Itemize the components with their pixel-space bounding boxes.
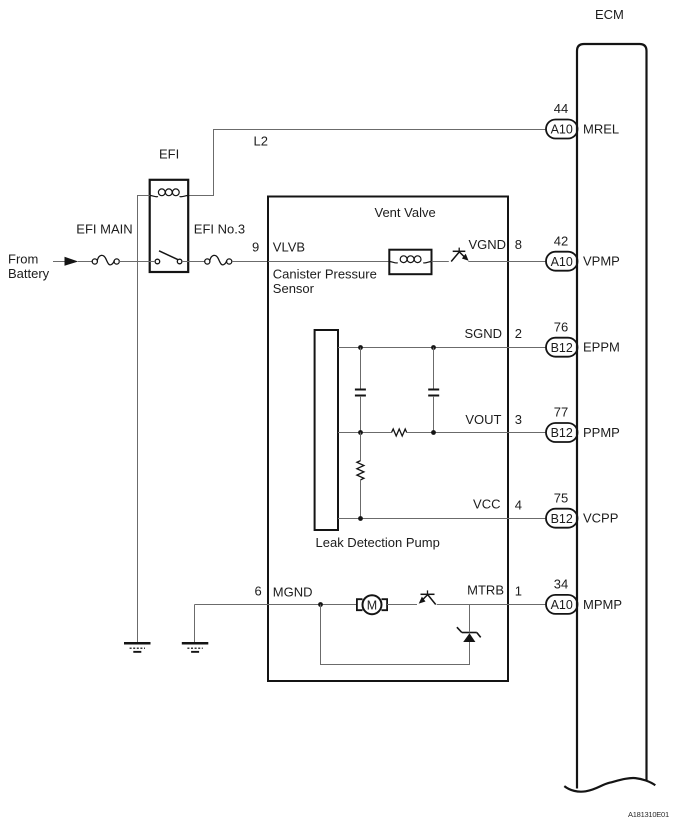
wire box to MPMP pin: [508, 604, 546, 606]
svg-text:VPMP: VPMP: [583, 254, 620, 269]
junction SGND-C1: [358, 345, 363, 350]
svg-text:A10: A10: [551, 255, 573, 269]
Vent Valve label: [375, 205, 436, 220]
ECM label: [595, 7, 624, 22]
node MTRB label: [467, 583, 504, 598]
pin 77 label: [554, 405, 568, 420]
junction VOUT-C2: [431, 430, 436, 435]
switch motor (MTRB): [419, 590, 436, 604]
wire L2 net: relay coil to MREL pin: [188, 130, 546, 196]
pin 34 label: [554, 577, 568, 592]
svg-text:VCC: VCC: [473, 497, 500, 512]
wire MGND row: [195, 604, 357, 606]
svg-text:VOUT: VOUT: [465, 412, 501, 427]
wire diode to MTRB wire: [469, 605, 471, 633]
wire box to VCPP pin: [508, 518, 546, 520]
pin 76 label: [554, 320, 568, 335]
svg-text:MREL: MREL: [583, 122, 619, 137]
zener diode D1: [457, 627, 481, 642]
resistor R2 (pull vertical): [357, 433, 364, 519]
svg-text:77: 77: [554, 405, 568, 420]
connector A10 (MPMP): [546, 595, 578, 614]
wire SGND row: [338, 347, 508, 349]
motor M1: [357, 595, 387, 614]
pin 4 label: [515, 497, 522, 512]
ground (relay coil): [124, 642, 151, 653]
node VCPP label: [583, 511, 618, 526]
junction VCC-R2: [358, 516, 363, 521]
vent valve coil: [389, 256, 431, 263]
svg-text:8: 8: [515, 237, 522, 252]
wire switch to box edge: [437, 604, 508, 606]
wire relay coil to ground: [138, 196, 150, 643]
connector B12 (EPPM): [546, 338, 578, 357]
wire arrow to fuse: [78, 261, 92, 263]
pin 3 label: [515, 412, 522, 427]
svg-text:L2: L2: [254, 134, 268, 149]
svg-text:EFI MAIN: EFI MAIN: [76, 222, 132, 237]
svg-text:B12: B12: [551, 512, 573, 526]
relay switch: [155, 251, 182, 264]
node MREL label: [583, 122, 619, 137]
ECM box (rounded top, wavy break at bottom): [564, 44, 655, 792]
node PPMP label: [583, 425, 620, 440]
connector A10 (VPMP): [546, 252, 578, 271]
ground (MGND): [182, 642, 209, 653]
wire coil to switch: [432, 261, 449, 263]
From Battery label: [8, 252, 50, 282]
svg-text:A181310E01: A181310E01: [628, 810, 669, 819]
connector B12 (PPMP): [546, 423, 578, 442]
svg-text:PPMP: PPMP: [583, 425, 620, 440]
wire motor to switch: [387, 604, 417, 606]
svg-text:SGND: SGND: [464, 326, 502, 341]
svg-text:Battery: Battery: [8, 266, 50, 281]
svg-text:1: 1: [515, 584, 522, 599]
node VPMP label: [583, 254, 620, 269]
node EPPM label: [583, 340, 620, 355]
Canister Pressure Sensor label: [273, 267, 377, 297]
relay EFI box: [150, 180, 189, 272]
svg-text:75: 75: [554, 491, 568, 506]
svg-text:MGND: MGND: [273, 585, 313, 600]
node L2 label: [254, 134, 268, 149]
node SGND label: [464, 326, 502, 341]
svg-text:B12: B12: [551, 426, 573, 440]
svg-text:A10: A10: [551, 123, 573, 137]
relay coil: [150, 189, 189, 197]
node VLVB label: [273, 240, 305, 255]
relay EFI label: [159, 147, 179, 162]
svg-text:EFI: EFI: [159, 147, 179, 162]
node VGND label: [468, 237, 506, 252]
wire box to VPMP pin: [508, 261, 546, 263]
leak detection pump body: [315, 330, 338, 530]
svg-text:ECM: ECM: [595, 7, 624, 22]
wire VOUT row right: [407, 432, 508, 434]
svg-text:3: 3: [515, 412, 522, 427]
wire fuse2 to sensor box: [232, 261, 268, 263]
capacitor C1: [355, 348, 366, 433]
wire MGND to ground: [194, 605, 196, 643]
svg-text:EFI No.3: EFI No.3: [194, 222, 245, 237]
wire VCC row: [338, 518, 508, 520]
svg-text:VLVB: VLVB: [273, 240, 305, 255]
svg-text:42: 42: [554, 234, 568, 249]
pin 2 label: [515, 326, 522, 341]
svg-text:4: 4: [515, 497, 522, 512]
junction VOUT-R: [358, 430, 363, 435]
fuse EFI No.3 label: [194, 222, 245, 237]
wire box to EPPM pin: [508, 347, 546, 349]
svg-text:EPPM: EPPM: [583, 340, 620, 355]
drawing number: [628, 810, 669, 819]
svg-text:Vent Valve: Vent Valve: [375, 205, 436, 220]
pin 44 label: [554, 101, 568, 116]
svg-text:VGND: VGND: [468, 237, 506, 252]
svg-text:9: 9: [252, 240, 259, 255]
svg-text:From: From: [8, 252, 38, 267]
node MPMP label: [583, 597, 622, 612]
svg-text:6: 6: [255, 584, 262, 599]
svg-text:34: 34: [554, 577, 568, 592]
pin 8 label: [515, 237, 522, 252]
svg-text:MPMP: MPMP: [583, 597, 622, 612]
pin 1 label: [515, 584, 522, 599]
wire from battery: [53, 261, 66, 263]
pin 75 label: [554, 491, 568, 506]
wire switch to box edge: [468, 261, 508, 263]
fuse EFI No.3: [205, 255, 232, 265]
pin 6 label: [255, 584, 262, 599]
wire fuse1 to relay: [119, 261, 155, 263]
svg-text:Canister Pressure: Canister Pressure: [273, 267, 377, 282]
svg-text:Sensor: Sensor: [273, 281, 315, 296]
wire bypass branch: [321, 605, 470, 665]
svg-text:76: 76: [554, 320, 568, 335]
svg-text:2: 2: [515, 326, 522, 341]
svg-text:Leak Detection Pump: Leak Detection Pump: [316, 535, 440, 550]
junction MGND-bypass: [318, 602, 323, 607]
connector B12 (VCPP): [546, 509, 578, 528]
node MGND label: [273, 585, 313, 600]
vent valve coil box: [389, 250, 431, 275]
svg-text:MTRB: MTRB: [467, 583, 504, 598]
svg-text:B12: B12: [551, 341, 573, 355]
junction SGND-C2: [431, 345, 436, 350]
pin 42 label: [554, 234, 568, 249]
Leak Detection Pump label: [316, 535, 440, 550]
fuse EFI MAIN: [92, 255, 119, 265]
svg-text:VCPP: VCPP: [583, 511, 618, 526]
svg-text:A10: A10: [551, 598, 573, 612]
switch vent valve (VGND): [451, 248, 468, 262]
resistor R1 (VOUT series): [392, 429, 407, 436]
pin 9 label: [252, 240, 259, 255]
arrow battery feed: [65, 257, 79, 266]
wire box to PPMP pin: [508, 432, 546, 434]
node VOUT label: [465, 412, 501, 427]
canister pressure sensor box: [268, 197, 508, 682]
connector A10 (MREL): [546, 120, 578, 139]
svg-text:44: 44: [554, 101, 568, 116]
fuse EFI MAIN label: [76, 222, 132, 237]
capacitor C2: [428, 348, 439, 433]
svg-text:M: M: [367, 598, 377, 612]
wire VLVB to vent valve coil: [268, 261, 389, 263]
wire through relay to fuse2: [182, 261, 205, 263]
node VCC label: [473, 497, 500, 512]
wire VOUT row left: [338, 432, 392, 434]
